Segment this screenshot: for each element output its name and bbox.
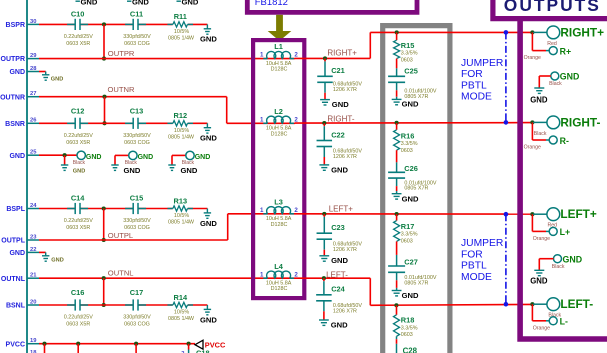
pin 19 (PVCC) (6, 338, 39, 348)
svg-text:OUTPUTS: OUTPUTS (504, 0, 601, 15)
resistor R12 (167, 111, 195, 140)
svg-text:10/5%: 10/5% (174, 310, 189, 316)
jumper wire for PBTL mode (left channel) (505, 214, 507, 304)
svg-text:Orange: Orange (524, 145, 541, 151)
jumper node RIGHT+ (504, 30, 509, 35)
svg-text:GND: GND (200, 315, 217, 324)
svg-text:RIGHT-: RIGHT- (327, 114, 354, 123)
svg-text:Black: Black (552, 264, 565, 270)
resistor R17 (394, 214, 418, 245)
svg-text:Black: Black (73, 160, 86, 166)
connector R+ (524, 46, 572, 61)
ground (530, 270, 548, 285)
wire LEFT+ from L3 (295, 213, 531, 215)
svg-text:L4: L4 (274, 262, 284, 271)
svg-text:22: 22 (30, 247, 36, 253)
svg-text:C25: C25 (404, 67, 418, 76)
svg-text:D128C: D128C (271, 222, 288, 228)
wire pin 25 GND row (39, 154, 77, 156)
junction on BSNL row (102, 303, 106, 307)
junction PVCC rail (187, 342, 191, 346)
ground (392, 291, 419, 301)
capacitor C15 (123, 194, 151, 231)
connector GND test point 1 (73, 151, 102, 166)
wire C12-C13 node to OUTNR (104, 97, 106, 124)
wire BSPL row (39, 208, 207, 210)
svg-text:1: 1 (260, 116, 264, 123)
svg-text:24: 24 (30, 203, 37, 209)
svg-text:1206 X7R: 1206 X7R (333, 87, 357, 93)
ground (pin 25) (61, 155, 85, 174)
junction R15 tap (395, 30, 399, 34)
svg-text:R-: R- (560, 136, 569, 146)
pin 22 (GND) (9, 247, 39, 257)
svg-text:C27: C27 (404, 258, 418, 267)
svg-text:330pfd/50V: 330pfd/50V (123, 218, 151, 224)
junction on OUTPL wire (102, 238, 106, 242)
capacitor C24 (316, 278, 362, 319)
svg-text:0603: 0603 (401, 239, 413, 245)
note JUMPER FOR PBTL MODE (461, 58, 503, 103)
svg-text:GND: GND (530, 276, 548, 285)
svg-text:Orange: Orange (533, 236, 550, 242)
svg-text:GND: GND (9, 69, 25, 76)
IC symbol edge (U1 amplifier) (26, 0, 28, 353)
pin 28 (GND) (9, 66, 39, 76)
wire PVCC stub down (77, 344, 79, 353)
wire to connector R- (531, 122, 533, 140)
svg-text:BSPL: BSPL (6, 206, 25, 213)
connector RIGHT- (534, 115, 601, 136)
svg-text:OUTNR: OUTNR (0, 94, 25, 101)
pin 29 (OUTPR) (1, 53, 40, 63)
svg-text:0805 1/4W: 0805 1/4W (168, 316, 195, 322)
box around output connectors (520, 17, 607, 339)
junction RIGHT+ (530, 30, 534, 34)
wire to connector RIGHT- (531, 121, 533, 123)
svg-text:C21: C21 (331, 66, 345, 75)
svg-text:20: 20 (30, 299, 36, 305)
title box OUTPUTS (493, 0, 607, 19)
wire OUTNR (39, 96, 227, 98)
capacitor C25 (388, 59, 437, 100)
resistor R11 (167, 12, 195, 41)
capacitor C17 (123, 288, 151, 327)
jumper node RIGHT- (504, 120, 509, 125)
ground (392, 99, 419, 108)
svg-text:GND: GND (181, 166, 198, 175)
junction RIGHT- (530, 120, 534, 124)
junction C22 tap (322, 121, 326, 125)
svg-text:1206 X7R: 1206 X7R (333, 309, 357, 315)
svg-text:GND: GND (200, 134, 217, 143)
wire PVCC rail (39, 343, 195, 345)
junction pin25 gnd (63, 153, 67, 157)
pin 26 (BSNR) (5, 118, 39, 128)
ground (168, 165, 198, 175)
svg-text:0805 1/4W: 0805 1/4W (168, 220, 195, 226)
ground (200, 209, 217, 228)
connector GND test point 3 (172, 151, 210, 166)
svg-text:GND: GND (138, 154, 154, 161)
ground (200, 123, 217, 142)
capacitor C22 (317, 123, 363, 164)
inductor L1 (260, 42, 298, 72)
svg-text:C17: C17 (130, 288, 144, 297)
wire PVCC stub down (135, 344, 137, 353)
svg-text:23: 23 (30, 234, 37, 240)
svg-text:FOR: FOR (461, 69, 483, 80)
svg-text:1: 1 (260, 271, 264, 278)
svg-text:OUTPR: OUTPR (108, 49, 135, 58)
svg-text:PBTL: PBTL (461, 261, 487, 272)
svg-text:28: 28 (30, 66, 37, 72)
svg-text:GND: GND (124, 166, 141, 175)
svg-text:GND: GND (51, 258, 63, 264)
svg-text:29: 29 (30, 53, 37, 59)
svg-text:0603 X5R: 0603 X5R (66, 322, 90, 328)
jumper node LEFT- (504, 302, 509, 307)
svg-text:C22: C22 (331, 131, 345, 140)
resistor R16 (394, 123, 418, 154)
capacitor C14 (64, 194, 93, 231)
svg-text:GND: GND (182, 0, 199, 7)
wire to connector RIGHT+ (531, 31, 533, 33)
svg-text:R18: R18 (401, 316, 415, 325)
connector GND test point 2 (115, 151, 153, 166)
svg-text:GND: GND (560, 72, 580, 82)
junction R18 tap (394, 303, 398, 307)
wire PVCC stub to C18 (cut off) (188, 344, 190, 350)
svg-text:Red: Red (547, 41, 557, 47)
svg-text:GND: GND (195, 154, 211, 161)
svg-text:0.22ufd/25V: 0.22ufd/25V (64, 218, 93, 224)
svg-text:MODE: MODE (461, 272, 492, 283)
ground (pin 28) (39, 72, 63, 83)
svg-text:PVCC: PVCC (205, 340, 226, 349)
svg-text:L1: L1 (274, 42, 283, 51)
svg-text:D128C: D128C (271, 131, 288, 137)
svg-text:C24: C24 (331, 284, 345, 293)
capacitor C23 (317, 214, 363, 255)
svg-text:Black: Black (534, 131, 547, 137)
capacitor C27 (388, 241, 437, 290)
svg-text:GND: GND (332, 100, 349, 109)
svg-text:C12: C12 (71, 107, 85, 116)
ground (392, 194, 419, 204)
svg-text:C16: C16 (71, 288, 85, 297)
wire BSNL row (39, 304, 207, 306)
svg-text:10/5%: 10/5% (174, 213, 189, 219)
junction BSPL/C14-C15 node (102, 206, 106, 210)
svg-text:GND: GND (331, 256, 348, 265)
wire C10-C11 node to OUTPR (103, 24, 105, 58)
callout box FB1812 (247, 0, 417, 12)
capacitor C10 (64, 10, 93, 47)
capacitor C12 (64, 107, 93, 146)
svg-text:0603: 0603 (401, 148, 413, 154)
jumper wire for PBTL mode (right channel) (505, 32, 507, 122)
svg-text:JUMPER: JUMPER (461, 238, 503, 249)
highlight box (gray) around PBTL snubbers (383, 26, 450, 353)
junction on BSNR row (102, 121, 106, 125)
ground (cut off at top) (76, 0, 98, 7)
wire OUTPL jog up to L3 (227, 214, 229, 240)
svg-text:OUTNL: OUTNL (108, 268, 134, 277)
svg-text:BSPR: BSPR (6, 22, 25, 29)
svg-text:0603: 0603 (401, 58, 413, 64)
svg-text:RIGHT+: RIGHT+ (560, 25, 604, 39)
svg-text:0603: 0603 (401, 332, 413, 338)
svg-text:10/5%: 10/5% (174, 29, 189, 35)
svg-text:330pfd/50V: 330pfd/50V (123, 315, 151, 321)
svg-text:RIGHT+: RIGHT+ (327, 48, 357, 57)
svg-text:C28: C28 (403, 346, 418, 353)
svg-text:OUTPL: OUTPL (1, 238, 25, 245)
junction PVCC rail (42, 342, 46, 346)
wire to connector L- (531, 304, 533, 321)
capacitor C21 (317, 58, 362, 99)
pin 25 (GND) (9, 150, 39, 160)
ground (200, 305, 217, 324)
connector L+ (533, 227, 570, 242)
wire OUTPL (39, 239, 228, 241)
svg-text:GND: GND (9, 250, 25, 257)
ground (530, 88, 548, 104)
junction R16 tap (395, 121, 399, 125)
svg-text:21: 21 (30, 273, 37, 279)
svg-text:LEFT+: LEFT+ (329, 205, 354, 214)
ground (cut off at top) (127, 0, 149, 7)
svg-text:LEFT-: LEFT- (560, 297, 593, 311)
svg-text:3.3/5%: 3.3/5% (401, 141, 418, 147)
svg-text:R15: R15 (401, 41, 415, 50)
svg-text:C23: C23 (331, 223, 345, 232)
svg-text:1: 1 (260, 207, 264, 214)
pin 18 (cut off) (30, 350, 37, 353)
svg-text:C26: C26 (404, 164, 418, 173)
arrow from FB1812 to L-filter box (268, 15, 292, 41)
capacitor C26 (388, 150, 437, 194)
wire RIGHT+ from L1 (295, 57, 370, 59)
ground (111, 165, 141, 175)
svg-text:1206 X7R: 1206 X7R (333, 247, 357, 253)
wire to connector LEFT+ (531, 213, 533, 215)
svg-text:0603 X5R: 0603 X5R (66, 140, 90, 146)
svg-text:0603 COG: 0603 COG (124, 322, 150, 328)
junction C21 tap (323, 56, 327, 60)
junction LEFT+ (530, 212, 534, 216)
svg-text:C15: C15 (130, 194, 144, 203)
pin 30 (BSPR) (6, 19, 39, 29)
junction PVCC rail (76, 342, 80, 346)
svg-text:LEFT-: LEFT- (326, 270, 348, 279)
svg-text:R11: R11 (174, 12, 187, 21)
wire LEFT- from L4 (295, 277, 370, 279)
svg-text:R12: R12 (174, 111, 188, 120)
svg-text:0603 COG: 0603 COG (124, 41, 150, 47)
svg-text:R13: R13 (174, 196, 188, 205)
svg-text:OUTPR: OUTPR (1, 56, 26, 63)
svg-text:GND: GND (563, 254, 583, 264)
svg-text:PBTL: PBTL (461, 80, 487, 91)
svg-text:GND: GND (200, 219, 217, 228)
svg-text:GND: GND (132, 0, 149, 7)
pin 21 (OUTNL) (1, 273, 39, 283)
connector GND (539, 72, 579, 88)
junction OUTNL at C16-C17 node (102, 276, 106, 280)
connector RIGHT+ (547, 25, 604, 46)
capacitor C28 (cut off) (397, 336, 418, 353)
svg-text:0805 1/4W: 0805 1/4W (168, 135, 195, 141)
svg-text:GND: GND (331, 320, 348, 329)
svg-text:GND: GND (530, 95, 548, 104)
svg-text:D128C: D128C (271, 67, 288, 73)
junction OUTNR at C12-C13 node (102, 95, 106, 99)
svg-text:0603 COG: 0603 COG (124, 140, 150, 146)
connector LEFT- (547, 297, 593, 318)
inductor L3 (260, 197, 298, 227)
svg-text:R16: R16 (401, 132, 415, 141)
svg-text:C14: C14 (71, 194, 85, 203)
svg-text:GND: GND (331, 165, 348, 174)
svg-text:Orange: Orange (524, 55, 541, 61)
wire BSPR row (39, 23, 207, 25)
svg-text:Black: Black (549, 81, 562, 87)
wire OUTNR jog down to L2 (226, 97, 228, 124)
wire PVCC stub down (44, 344, 46, 353)
note JUMPER FOR PBTL MODE (461, 238, 503, 283)
junction PVCC rail (134, 342, 138, 346)
svg-text:0.22ufd/25V: 0.22ufd/25V (64, 133, 93, 139)
svg-text:FB1812: FB1812 (255, 0, 288, 8)
svg-text:L2: L2 (274, 107, 283, 116)
wire BSNR row (39, 122, 207, 124)
capacitor C13 (123, 107, 151, 146)
svg-text:RIGHT-: RIGHT- (560, 115, 600, 129)
svg-text:330pfd/50V: 330pfd/50V (123, 34, 151, 40)
ground (pin 22) (39, 252, 64, 263)
svg-text:OUTNR: OUTNR (108, 85, 136, 94)
jumper node LEFT+ (504, 212, 509, 217)
resistor R13 (167, 196, 195, 225)
power symbol PVCC (195, 340, 226, 349)
resistor R18 (394, 305, 418, 338)
highlight box around inductors L1-L4 (253, 40, 304, 298)
svg-text:19: 19 (30, 338, 37, 344)
svg-text:GND: GND (73, 168, 85, 174)
wire C14-C15 node to OUTPL (103, 209, 105, 241)
wire OUTPR to L1 (39, 58, 262, 60)
svg-text:26: 26 (30, 118, 37, 124)
svg-text:0805 X7R: 0805 X7R (404, 280, 428, 286)
svg-text:GND: GND (51, 76, 63, 82)
svg-text:R+: R+ (560, 46, 572, 56)
wire to connector LEFT- (531, 303, 533, 305)
svg-text:FOR: FOR (461, 249, 483, 260)
svg-text:30: 30 (30, 19, 36, 25)
pin 23 (OUTPL) (1, 234, 39, 244)
wire to connector R+ (531, 32, 533, 50)
svg-text:10/5%: 10/5% (174, 128, 189, 134)
svg-text:LEFT+: LEFT+ (560, 207, 596, 221)
svg-text:GND: GND (81, 0, 98, 7)
svg-text:R14: R14 (174, 293, 188, 302)
svg-text:0603 X5R: 0603 X5R (66, 225, 90, 231)
svg-text:GND: GND (402, 99, 419, 108)
ground (319, 165, 348, 174)
svg-text:27: 27 (30, 91, 36, 97)
connector R- (524, 136, 569, 151)
junction R17 tap (395, 212, 399, 216)
svg-text:C11: C11 (130, 10, 143, 19)
ground (200, 24, 217, 43)
svg-text:3.3/5%: 3.3/5% (401, 232, 418, 238)
junction LEFT- (530, 302, 534, 306)
pin 20 (BSNL) (6, 299, 39, 309)
svg-text:GND: GND (402, 194, 419, 203)
capacitor C16 (64, 288, 93, 327)
capacitor C11 (123, 10, 151, 47)
connector GND (539, 254, 582, 270)
svg-text:0805 1/4W: 0805 1/4W (168, 36, 195, 42)
svg-text:OUTPL: OUTPL (108, 231, 133, 240)
connector LEFT+ (547, 207, 597, 228)
junction C23 tap (322, 212, 326, 216)
svg-text:L+: L+ (560, 227, 571, 237)
resistor R15 (394, 32, 418, 63)
svg-text:JUMPER: JUMPER (461, 58, 503, 69)
wire C16-C17 node to OUTNL (103, 278, 105, 305)
svg-text:1: 1 (260, 52, 264, 59)
svg-text:0603 X5R: 0603 X5R (66, 41, 90, 47)
svg-text:GND: GND (9, 153, 25, 160)
inductor L2 (260, 107, 298, 137)
wire RIGHT- from L2 (295, 122, 531, 125)
svg-text:1206 X7R: 1206 X7R (333, 154, 357, 160)
svg-text:BSNL: BSNL (6, 303, 26, 310)
ground (cut off at top) (177, 0, 199, 7)
svg-text:0805 X7R: 0805 X7R (404, 186, 428, 192)
junction on OUTPR wire (102, 57, 106, 61)
svg-text:3.3/5%: 3.3/5% (401, 325, 418, 331)
svg-text:GND: GND (200, 35, 217, 44)
svg-text:L-: L- (560, 317, 568, 327)
svg-text:R17: R17 (401, 222, 415, 231)
svg-text:2: 2 (294, 271, 298, 278)
connector L- (533, 317, 568, 332)
svg-text:PVCC: PVCC (6, 341, 25, 348)
wire OUTNL to L4 (39, 277, 262, 279)
ground (320, 100, 349, 109)
svg-text:3.3/5%: 3.3/5% (401, 51, 418, 57)
svg-text:Orange: Orange (533, 325, 550, 331)
svg-text:0.22ufd/25V: 0.22ufd/25V (64, 34, 93, 40)
pin 24 (BSPL) (6, 203, 39, 213)
svg-text:OUTNL: OUTNL (1, 276, 26, 283)
svg-text:L3: L3 (274, 197, 283, 206)
svg-text:GND: GND (86, 154, 102, 161)
ground (319, 320, 348, 329)
svg-text:0.22ufd/25V: 0.22ufd/25V (64, 315, 93, 321)
wire to connector L+ (531, 214, 533, 231)
svg-text:C10: C10 (71, 10, 85, 19)
inductor L4 (260, 262, 298, 292)
svg-text:BSNR: BSNR (5, 121, 25, 128)
ground (319, 256, 348, 265)
svg-text:2: 2 (294, 207, 298, 214)
svg-text:25: 25 (30, 150, 37, 156)
